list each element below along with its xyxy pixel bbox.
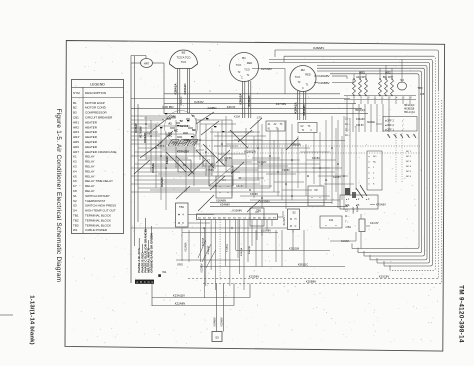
svg-text:K18A(2)A: K18A(2)A xyxy=(177,150,189,154)
svg-text:CB1: CB1 xyxy=(73,116,79,120)
svg-text:C: C xyxy=(295,225,297,228)
svg-text:TERMINAL BLOCK: TERMINAL BLOCK xyxy=(85,218,111,222)
svg-text:K11A(2): K11A(2) xyxy=(226,244,229,252)
svg-text:K25A8V: K25A8V xyxy=(220,317,223,327)
svg-text:K5: K5 xyxy=(73,174,77,178)
svg-text:●OFF 1: ●OFF 1 xyxy=(385,128,394,132)
svg-text:K10A2C: K10A2C xyxy=(144,133,147,143)
svg-text:GROUND BARE OR GREEN: GROUND BARE OR GREEN xyxy=(150,233,154,273)
svg-text:TERMINAL BLOCK: TERMINAL BLOCK xyxy=(85,214,111,218)
svg-text:B1: B1 xyxy=(242,56,246,60)
svg-text:HEATER: HEATER xyxy=(85,120,98,124)
svg-text:S1: S1 xyxy=(73,194,77,198)
svg-text:13 ○: 13 ○ xyxy=(345,118,350,121)
svg-text:HEATER CRANKCASE: HEATER CRANKCASE xyxy=(85,150,116,154)
svg-text:NC 2: NC 2 xyxy=(406,156,412,158)
svg-text:K8A8V: K8A8V xyxy=(236,185,244,188)
svg-text:MODE: MODE xyxy=(367,120,375,124)
svg-text:K25B8V: K25B8V xyxy=(306,280,316,284)
svg-text:●OFF 2: ●OFF 2 xyxy=(385,119,394,123)
svg-text:K13A: K13A xyxy=(234,116,240,119)
svg-text:LEGEND: LEGEND xyxy=(90,82,105,86)
svg-text:HEATER: HEATER xyxy=(85,140,98,144)
svg-text:K17A2BV: K17A2BV xyxy=(140,126,143,138)
svg-text:NC 3: NC 3 xyxy=(406,161,412,163)
svg-text:K34A2C: K34A2C xyxy=(183,83,187,95)
svg-text:K30 8V: K30 8V xyxy=(356,124,364,127)
svg-text:TB1: TB1 xyxy=(73,214,79,218)
svg-text:1-13/(1-14 blank): 1-13/(1-14 blank) xyxy=(29,295,35,345)
svg-text:SYM: SYM xyxy=(73,91,80,95)
svg-text:K2A(2)A: K2A(2)A xyxy=(240,247,243,256)
svg-text:7 ○: 7 ○ xyxy=(345,221,349,224)
svg-text:▲: ▲ xyxy=(162,118,164,121)
svg-text:TB2: TB2 xyxy=(179,205,184,209)
svg-text:NC 5: NC 5 xyxy=(406,171,412,173)
svg-text:GRA WHI: GRA WHI xyxy=(356,76,366,79)
svg-text:K22A8V: K22A8V xyxy=(200,263,203,273)
svg-text:N: N xyxy=(148,280,150,284)
svg-text:HR7: HR7 xyxy=(73,150,79,154)
svg-text:TCO: TCO xyxy=(181,60,186,64)
svg-text:K15A8A: K15A8A xyxy=(184,242,187,252)
svg-text:A: A xyxy=(136,280,138,284)
svg-text:K7A(2)A: K7A(2)A xyxy=(202,237,205,246)
svg-text:S3: S3 xyxy=(215,335,219,339)
svg-text:HEATER: HEATER xyxy=(85,130,98,134)
svg-text:K6A2C: K6A2C xyxy=(166,156,169,164)
svg-text:S2: S2 xyxy=(292,211,296,215)
svg-text:K46 IN: K46 IN xyxy=(227,105,236,109)
svg-text:B3: B3 xyxy=(73,111,77,115)
svg-text:NO: NO xyxy=(373,156,377,158)
svg-text:K4D8N: K4D8N xyxy=(224,157,232,160)
svg-text:HR3: HR3 xyxy=(73,130,79,134)
svg-text:HRL4 (2)A: HRL4 (2)A xyxy=(404,111,415,114)
svg-text:TCO: TCO xyxy=(295,75,300,79)
svg-text:RELAY: RELAY xyxy=(85,155,95,159)
svg-text:K29A8V: K29A8V xyxy=(319,74,330,78)
svg-text:TB3: TB3 xyxy=(73,223,79,227)
svg-text:RELAY: RELAY xyxy=(85,184,95,188)
svg-text:K1: K1 xyxy=(73,155,77,159)
svg-text:K5E(2)C: K5E(2)C xyxy=(298,263,308,267)
svg-text:B: B xyxy=(140,280,142,284)
svg-text:K3: K3 xyxy=(73,165,77,169)
svg-text:SWITCH ROTARY: SWITCH ROTARY xyxy=(85,194,110,198)
svg-text:HR6: HR6 xyxy=(73,145,79,149)
svg-text:K44 8V: K44 8V xyxy=(370,221,379,225)
svg-text:HK3B(2)B: HK3B(2)B xyxy=(404,109,415,111)
svg-text:K22A8N: K22A8N xyxy=(175,302,185,306)
svg-text:K2: K2 xyxy=(73,160,77,164)
svg-text:╱: ╱ xyxy=(401,128,404,132)
svg-text:K9A(2)B: K9A(2)B xyxy=(248,245,251,254)
svg-text:K26A2A: K26A2A xyxy=(173,83,177,95)
svg-text:K24A8V: K24A8V xyxy=(213,317,216,327)
svg-text:12 ○: 12 ○ xyxy=(345,123,350,126)
svg-text:B1: B1 xyxy=(73,101,77,105)
svg-text:B2: B2 xyxy=(301,68,305,72)
svg-text:HEATER: HEATER xyxy=(85,125,98,129)
svg-text:TCO: TCO xyxy=(236,63,241,67)
svg-text:C: C xyxy=(144,280,146,284)
svg-text:H: H xyxy=(295,218,297,221)
svg-text:╱: ╱ xyxy=(401,119,404,123)
svg-text:10 ○: 10 ○ xyxy=(345,134,350,137)
svg-text:RELAY TIME DELAY: RELAY TIME DELAY xyxy=(85,179,113,183)
svg-text:←K10A8V: ←K10A8V xyxy=(230,209,242,213)
svg-text:S3: S3 xyxy=(73,204,77,208)
svg-text:S4: S4 xyxy=(73,209,77,213)
svg-text:B3: B3 xyxy=(182,51,186,55)
svg-text:K34A2C: K34A2C xyxy=(247,95,251,107)
svg-text:TB3: TB3 xyxy=(417,86,423,90)
svg-text:K6: K6 xyxy=(73,179,77,183)
svg-text:K18A2V: K18A2V xyxy=(135,123,138,133)
svg-text:HR7: HR7 xyxy=(144,61,150,65)
svg-text:K8B(2)A: K8B(2)A xyxy=(291,142,301,146)
svg-text:HIGH TEMP CUT OUT: HIGH TEMP CUT OUT xyxy=(85,209,116,213)
svg-text:RELAY: RELAY xyxy=(85,160,95,164)
svg-text:K23A(2)V: K23A(2)V xyxy=(173,294,185,298)
svg-text:11 ○: 11 ○ xyxy=(345,129,350,132)
svg-text:TB1: TB1 xyxy=(256,208,262,212)
svg-text:A1: A1 xyxy=(168,122,172,126)
svg-text:●OFF 2: ●OFF 2 xyxy=(385,123,394,127)
svg-text:HR4: HR4 xyxy=(73,135,79,139)
svg-text:K2A8Y: K2A8Y xyxy=(333,176,341,179)
svg-text:Figure 1-5. Air Conditioner El: Figure 1-5. Air Conditioner Electrical S… xyxy=(55,109,62,283)
svg-text:NC 4: NC 4 xyxy=(406,166,412,168)
svg-text:K7: K7 xyxy=(73,184,77,188)
svg-text:HR2: HR2 xyxy=(73,125,79,129)
svg-text:HR6A(2)C: HR6A(2)C xyxy=(355,109,366,112)
svg-text:HEATER: HEATER xyxy=(85,145,98,149)
svg-text:K28A8V: K28A8V xyxy=(313,46,324,50)
svg-text:RELAY: RELAY xyxy=(85,169,95,173)
svg-text:K19D8V: K19D8V xyxy=(260,199,270,203)
svg-text:K8: K8 xyxy=(73,189,77,193)
svg-text:CB1: CB1 xyxy=(346,225,352,229)
svg-text:SWITCH HIGH PRESS: SWITCH HIGH PRESS xyxy=(85,204,116,208)
svg-text:RELAY: RELAY xyxy=(85,189,95,193)
svg-text:K10A8V: K10A8V xyxy=(261,229,271,233)
svg-text:TCO A TCO: TCO A TCO xyxy=(177,56,191,60)
svg-text:11 ○: 11 ○ xyxy=(345,215,350,218)
svg-text:T2: T2 xyxy=(179,119,183,123)
svg-text:X16A8N: X16A8N xyxy=(216,199,226,203)
svg-text:G: G xyxy=(151,280,153,284)
svg-text:MOTOR COND: MOTOR COND xyxy=(85,106,107,110)
svg-text:RELAY: RELAY xyxy=(85,174,95,178)
svg-text:K9D8V: K9D8V xyxy=(282,169,290,172)
svg-text:THERMOSTAT: THERMOSTAT xyxy=(85,199,105,203)
svg-text:NC 1: NC 1 xyxy=(406,151,412,153)
svg-text:K4: K4 xyxy=(73,169,77,173)
svg-text:COMPRESSOR: COMPRESSOR xyxy=(85,111,108,115)
svg-text:K10A8V: K10A8V xyxy=(283,216,286,225)
svg-text:K4C8V: K4C8V xyxy=(312,157,320,160)
svg-text:S2: S2 xyxy=(73,199,77,203)
svg-text:K25C8V: K25C8V xyxy=(379,275,390,279)
svg-text:HEATER: HEATER xyxy=(85,135,98,139)
svg-text:C: C xyxy=(302,87,304,90)
svg-text:K27A8V: K27A8V xyxy=(261,67,272,71)
svg-text:B2: B2 xyxy=(73,106,77,110)
svg-text:K28 8V: K28 8V xyxy=(194,100,203,104)
svg-text:NC: NC xyxy=(192,128,196,132)
svg-text:TB2: TB2 xyxy=(73,218,79,222)
svg-text:K4D IBN: K4D IBN xyxy=(163,105,174,109)
svg-text:MOTOR EVAP: MOTOR EVAP xyxy=(85,101,105,105)
svg-text:K35A2C: K35A2C xyxy=(180,96,183,105)
svg-text:12 ○: 12 ○ xyxy=(345,210,350,213)
svg-text:TCO: TCO xyxy=(244,68,249,72)
svg-text:CABLE POWER: CABLE POWER xyxy=(85,228,108,232)
svg-text:RED: RED xyxy=(305,73,311,77)
svg-text:K7B8N: K7B8N xyxy=(206,169,214,172)
svg-text:DESCRIPTION: DESCRIPTION xyxy=(85,91,106,95)
svg-text:K70A8V: K70A8V xyxy=(376,203,386,207)
svg-text:K2E(2)B: K2E(2)B xyxy=(289,247,299,251)
svg-text:K25D8V: K25D8V xyxy=(249,275,260,279)
svg-text:╱: ╱ xyxy=(401,123,404,127)
svg-text:RED: RED xyxy=(247,61,253,65)
svg-text:RELAY: RELAY xyxy=(85,165,95,169)
svg-text:HR5: HR5 xyxy=(73,140,79,144)
svg-text:K40BN: K40BN xyxy=(208,106,217,110)
svg-text:K6A8Y: K6A8Y xyxy=(352,206,355,213)
svg-text:165: 165 xyxy=(420,92,425,96)
svg-text:K44: K44 xyxy=(329,219,334,222)
svg-text:K24A8V: K24A8V xyxy=(220,203,230,207)
svg-text:CIRCUIT BREAKER: CIRCUIT BREAKER xyxy=(85,116,113,120)
svg-text:K26B8V: K26B8V xyxy=(319,81,330,85)
svg-text:GRO: GRO xyxy=(177,263,183,267)
svg-text:W1: W1 xyxy=(162,270,167,274)
svg-text:K36A8V: K36A8V xyxy=(356,118,365,121)
svg-text:TERMINAL BLOCK: TERMINAL BLOCK xyxy=(85,223,111,227)
svg-text:HR4A(2)C: HR4A(2)C xyxy=(404,104,415,107)
svg-text:K47 IBN: K47 IBN xyxy=(276,102,286,106)
svg-text:NC: NC xyxy=(373,162,377,164)
svg-text:K10A2A: K10A2A xyxy=(152,163,155,173)
svg-text:K6B8V: K6B8V xyxy=(158,145,166,148)
svg-text:TM 9-4120-398-14: TM 9-4120-398-14 xyxy=(458,285,465,343)
svg-text:HR1: HR1 xyxy=(73,120,79,124)
svg-text:C: C xyxy=(241,77,243,80)
svg-text:NC 6: NC 6 xyxy=(406,176,412,178)
